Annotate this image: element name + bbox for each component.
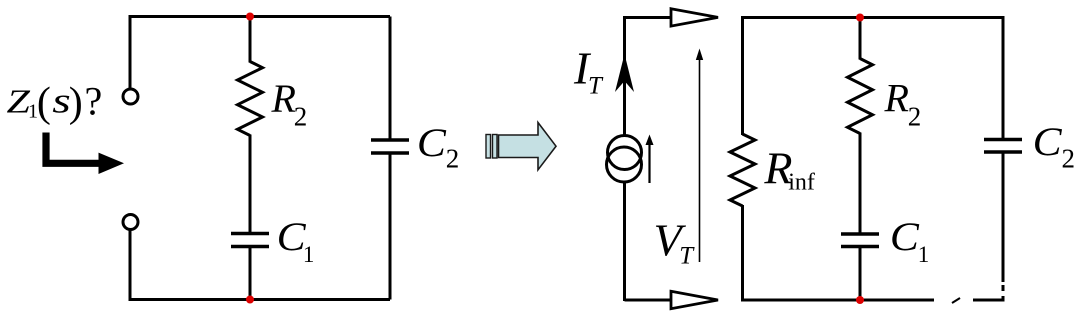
svg-text:C: C	[1033, 119, 1063, 164]
capacitor C1 (left) plates	[231, 232, 269, 236]
left circuit: wire between R2 and C1	[249, 135, 252, 234]
capacitor C2 (left) plates	[371, 138, 409, 142]
watermark remnant tick on bottom wire	[952, 298, 960, 303]
cyan transform arrow	[499, 123, 557, 170]
capacitor C2 (right) plates	[984, 138, 1022, 142]
thick impedance-look arrow	[46, 133, 100, 164]
left circuit: top-left vertical wire to upper terminal	[129, 15, 132, 89]
test source loop: upper vertical wire	[623, 16, 626, 136]
resistor R2 (left) zigzag	[238, 62, 263, 136]
right circuit: left branch upper lead	[741, 16, 744, 135]
open arrow bottom	[671, 291, 718, 308]
svg-text:2: 2	[1062, 144, 1076, 174]
right circuit: left branch lower lead	[741, 205, 744, 301]
right circuit: right branch lower lead with watermark gaps	[1002, 152, 1005, 282]
current source circle lower	[607, 147, 642, 182]
svg-text:2: 2	[908, 101, 922, 131]
right circuit: middle branch top lead	[859, 18, 862, 60]
svg-text:C: C	[890, 214, 920, 259]
resistor Rinf zigzag	[730, 134, 755, 206]
capacitor C1 (right) plates	[841, 232, 879, 236]
svg-text:2: 2	[294, 102, 308, 132]
node dot bottom (left circuit)	[246, 296, 254, 304]
thin VT arrow	[699, 54, 701, 262]
svg-text:?: ?	[85, 79, 103, 124]
upper terminal circle	[123, 89, 138, 104]
right circuit: top wire	[742, 16, 1003, 19]
resistor R2 (right) zigzag	[848, 59, 873, 134]
svg-text:): )	[69, 80, 83, 126]
svg-text:1: 1	[303, 242, 315, 267]
svg-text:R: R	[271, 76, 296, 121]
right circuit: bottom wire left piece	[741, 299, 934, 302]
cyan transform arrow bars	[486, 135, 491, 159]
svg-text:T: T	[679, 243, 695, 270]
current source side arrow	[648, 141, 650, 183]
left circuit: right branch lower lead	[389, 153, 392, 300]
node dot top (right circuit)	[856, 14, 864, 22]
svg-text:C: C	[417, 120, 447, 165]
test source loop: lower vertical wire	[623, 181, 626, 301]
svg-text:(: (	[37, 80, 51, 126]
left circuit: bottom wire	[129, 298, 391, 301]
left circuit: C1 bottom lead	[249, 247, 252, 300]
svg-text:2: 2	[446, 144, 460, 174]
lower terminal circle	[123, 215, 138, 230]
left circuit: bottom-left vertical wire from lower terminal	[129, 230, 132, 302]
node dot bottom (right circuit)	[856, 296, 864, 304]
open arrow top	[671, 9, 718, 26]
node dot top (left circuit)	[246, 13, 254, 21]
right circuit: bottom wire right piece	[973, 299, 1005, 302]
svg-text:R: R	[884, 76, 909, 121]
svg-text:inf: inf	[788, 170, 815, 196]
right circuit: right branch upper lead	[1002, 16, 1005, 140]
test source loop: bottom wire	[625, 299, 672, 302]
current source circle upper	[608, 136, 642, 170]
right circuit: wire between R2 and C1	[859, 133, 862, 235]
test source loop: top wire	[625, 16, 672, 19]
svg-text:1: 1	[918, 242, 930, 267]
svg-text:T: T	[588, 73, 604, 100]
left circuit: right branch upper lead	[389, 17, 392, 141]
left circuit: middle branch top lead	[249, 17, 252, 63]
right circuit: C1 bottom lead	[859, 247, 862, 301]
current direction arrowhead on wire	[615, 54, 634, 92]
left circuit: top wire	[129, 15, 391, 18]
